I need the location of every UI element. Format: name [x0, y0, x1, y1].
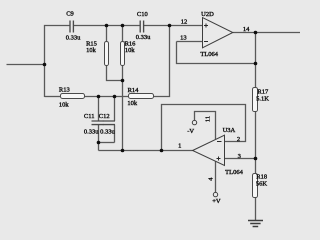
capacitor C12 — [103, 121, 115, 125]
wire R18 bottom lead — [255, 197, 257, 221]
svg-text:13: 13 — [180, 34, 187, 41]
wire R17 top lead — [255, 64, 257, 89]
svg-text:U2D: U2D — [201, 11, 214, 18]
wire U3A pin3 stub — [224, 158, 256, 160]
svg-text:C12: C12 — [99, 113, 110, 120]
svg-text:C10: C10 — [137, 11, 148, 18]
wire R15 bottom lead jog — [107, 65, 123, 81]
svg-text:56K: 56K — [256, 181, 268, 188]
svg-text:C9: C9 — [66, 11, 74, 18]
wire C12 top lead — [114, 97, 116, 122]
wire R16 top lead — [122, 26, 124, 42]
svg-text:0.33u: 0.33u — [84, 128, 99, 135]
node R14 top rail — [168, 24, 172, 28]
resistor R15 — [86, 41, 108, 66]
svg-text:R14: R14 — [128, 87, 140, 94]
svg-text:2: 2 — [237, 136, 240, 143]
op-amp U3A — [193, 127, 244, 176]
svg-text:10k: 10k — [59, 101, 70, 108]
svg-text:5.1K: 5.1K — [256, 96, 269, 103]
wire C11 bottom lead — [98, 125, 100, 143]
wire U2D pin13 stub — [177, 41, 203, 43]
resistor R14 — [127, 87, 153, 107]
svg-text:0.33u: 0.33u — [66, 35, 81, 42]
capacitor C10 — [140, 21, 143, 33]
power terminal +V — [212, 192, 221, 205]
ground — [248, 221, 263, 227]
svg-text:R17: R17 — [257, 88, 269, 95]
wire cap bottoms join — [99, 142, 115, 144]
capacitor C9 — [70, 21, 73, 33]
node C12 mid rail — [113, 95, 117, 99]
wire input — [7, 64, 45, 66]
wire R17 bottom lead — [255, 111, 257, 159]
capacitor C11 — [92, 121, 104, 125]
node R15 R16 join — [121, 79, 125, 83]
resistor R16 — [121, 41, 137, 66]
wire C12 bottom lead — [114, 125, 116, 143]
svg-text:TL064: TL064 — [225, 169, 243, 176]
wire U3A feedback loop pin2 — [162, 105, 246, 151]
svg-text:U3A: U3A — [223, 127, 236, 134]
svg-text:11: 11 — [205, 116, 212, 122]
node R16 output rail — [121, 149, 125, 153]
svg-text:0.33u: 0.33u — [100, 128, 115, 135]
wire U3A output rail pin 1 — [99, 150, 193, 152]
svg-text:14: 14 — [243, 26, 250, 33]
svg-text:R18: R18 — [256, 173, 267, 180]
power terminal -V — [187, 120, 196, 134]
node C11 mid rail — [97, 95, 101, 99]
svg-text:12: 12 — [181, 19, 188, 26]
wire R18 top lead — [255, 159, 257, 175]
node pin3 R17 R18 — [254, 157, 258, 161]
node input junction — [43, 63, 47, 67]
node R15 top rail — [105, 24, 109, 28]
wire mid rail left of R13 — [45, 96, 61, 98]
svg-text:TL064: TL064 — [200, 51, 218, 58]
svg-text:+V: +V — [212, 198, 221, 205]
node R16 top rail — [121, 24, 125, 28]
svg-text:10k: 10k — [86, 47, 97, 54]
svg-text:10k: 10k — [125, 47, 136, 54]
wire top rail C10 to U2D pin12 — [144, 25, 203, 27]
svg-text:C11: C11 — [84, 113, 95, 120]
resistor R13 — [59, 86, 85, 108]
wire R15 top lead — [106, 26, 108, 42]
node U2D output — [254, 31, 258, 35]
svg-text:10k: 10k — [127, 100, 138, 107]
resistor R18 — [253, 173, 268, 197]
wire U2D output pin14 — [233, 32, 300, 34]
wire drop to U3A output rail — [98, 143, 100, 151]
wire output junction down — [255, 33, 257, 64]
wire U2D feedback — [177, 42, 256, 64]
wire U3A pin11 to -V — [195, 112, 216, 140]
node cap bottoms — [97, 141, 101, 145]
svg-text:-V: -V — [187, 128, 194, 135]
wire left vertical to top rail — [45, 26, 71, 98]
wire R16 bottom lead to output rail — [122, 65, 124, 151]
op-amp U2D — [200, 11, 232, 58]
wire mid rail R13 to R14 — [85, 96, 129, 98]
node feedback R17 — [254, 62, 258, 66]
wire U3A pin4 to +V — [215, 161, 217, 192]
wire top rail C9 to C10 — [73, 25, 140, 27]
wire R14 right lead up to top rail — [154, 26, 170, 97]
svg-text:0.33u: 0.33u — [136, 34, 151, 41]
resistor R17 — [253, 88, 270, 112]
svg-text:R13: R13 — [59, 86, 70, 93]
node feedback output rail — [160, 149, 164, 153]
svg-text:1: 1 — [178, 142, 181, 149]
svg-text:3: 3 — [238, 153, 241, 160]
wire C11 top lead — [98, 97, 100, 122]
